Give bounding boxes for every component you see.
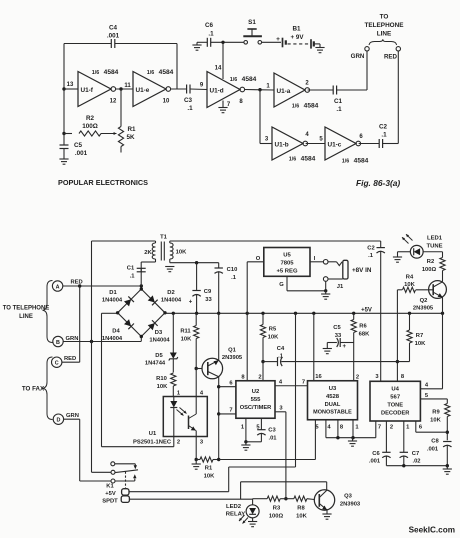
wire Q1 collector (218, 377, 220, 460)
svg-text:2: 2 (258, 375, 261, 381)
diode D3 1N4004 (147, 320, 157, 330)
ground Q3 (326, 510, 328, 514)
svg-text:Q3: Q3 (344, 494, 353, 500)
svg-text:2: 2 (356, 375, 359, 381)
opto arrows (177, 410, 184, 416)
wire (140, 262, 142, 272)
opto transistor (195, 397, 197, 415)
svg-text:7805: 7805 (280, 261, 294, 267)
diode D4 1N4004 (124, 319, 134, 329)
svg-text:4584: 4584 (242, 76, 257, 83)
diode bridge outline (118, 289, 165, 337)
terminal A (52, 281, 62, 291)
svg-text:S1: S1 (248, 19, 256, 26)
svg-text:+5V: +5V (361, 308, 372, 314)
junction (441, 312, 444, 315)
junction (246, 312, 249, 315)
svg-text:12: 12 (110, 99, 117, 105)
svg-text:1N4744: 1N4744 (145, 361, 166, 367)
node (351, 436, 354, 439)
node (446, 431, 449, 434)
wire Q2 emitter (442, 297, 444, 313)
wire audio rail (170, 240, 381, 242)
svg-text:2: 2 (390, 425, 393, 431)
LED2 RELAY (252, 499, 254, 505)
svg-text:C6: C6 (372, 451, 380, 457)
svg-text:A: A (56, 284, 60, 290)
capacitor C3 top (186, 85, 188, 94)
svg-text:C7: C7 (412, 451, 419, 457)
svg-text:GRN: GRN (351, 53, 365, 60)
svg-text:1/6: 1/6 (342, 159, 350, 165)
svg-text:TO FAX: TO FAX (22, 386, 45, 393)
junction (261, 312, 264, 315)
wire Q1 emitter (218, 313, 220, 360)
svg-text:1N4004: 1N4004 (102, 298, 123, 304)
node (446, 464, 449, 467)
junction (312, 312, 315, 315)
transistor Q3 2N3903 (314, 490, 334, 510)
svg-text:B1: B1 (292, 26, 301, 33)
svg-text:J1: J1 (337, 284, 344, 290)
capacitor C3 bottom (260, 418, 262, 429)
wire (245, 89, 274, 92)
svg-text:.1: .1 (368, 253, 374, 259)
svg-text:10K: 10K (157, 384, 168, 390)
wire (211, 41, 244, 43)
wire bridge minus to opto (102, 312, 117, 314)
svg-text:U1: U1 (149, 431, 157, 437)
svg-text:R2: R2 (427, 259, 434, 265)
svg-text:10K: 10K (430, 417, 441, 423)
svg-text:G: G (279, 282, 284, 288)
wire 555 pin1 (245, 418, 247, 442)
svg-text:R11: R11 (180, 329, 191, 335)
wire D down (64, 418, 80, 420)
resistor R3 100ohm (253, 498, 268, 500)
capacitor C8 (443, 441, 451, 443)
wire C (62, 361, 80, 363)
svg-text:Q2: Q2 (420, 298, 428, 304)
ground C5 (323, 348, 332, 350)
brace fax (43, 357, 53, 420)
svg-text:10: 10 (163, 99, 170, 105)
wire LED1 right (423, 251, 442, 253)
ground C5 (59, 158, 68, 160)
svg-text:10K: 10K (296, 513, 307, 519)
resistor R11 10K (195, 313, 197, 325)
wire C4 to R7 (281, 361, 409, 363)
svg-text:1/6: 1/6 (230, 77, 238, 83)
svg-text:10K: 10K (176, 250, 187, 256)
svg-text:SeekIC.com: SeekIC.com (409, 526, 455, 535)
wire 4528 gnd bar (326, 437, 376, 439)
op-amp U1-f (78, 72, 111, 107)
relay K1 contacts (111, 462, 115, 466)
svg-text:U1-f: U1-f (81, 87, 94, 94)
wire LED1 left (398, 251, 411, 253)
svg-text:C1: C1 (127, 266, 135, 272)
svg-text:7: 7 (229, 408, 232, 414)
svg-text:RED: RED (64, 356, 76, 362)
wire (308, 89, 334, 91)
svg-text:.1: .1 (381, 132, 387, 139)
terminal B (53, 336, 63, 346)
wire 4528 pin4 (325, 420, 327, 438)
resistor R1 10K bottom (196, 459, 200, 461)
node (221, 41, 224, 44)
resistor R6 68K (353, 313, 355, 319)
node (217, 458, 220, 461)
LED1 arrows (402, 237, 409, 243)
svg-text:+5 REG: +5 REG (276, 269, 298, 275)
wire T1 top to relay (92, 240, 156, 242)
svg-text:D1: D1 (109, 290, 117, 296)
svg-text:U1-d: U1-d (210, 87, 224, 94)
svg-text:.001: .001 (75, 150, 88, 157)
resistor R7 10K (409, 313, 411, 330)
ground LED2 (248, 521, 257, 523)
diode D2 1N4004 (147, 295, 157, 305)
wire 555 pin3 (275, 411, 286, 413)
svg-text:100Ω: 100Ω (422, 267, 437, 273)
capacitor C2 top (378, 139, 380, 148)
svg-text:C6: C6 (205, 22, 214, 29)
wire A to C (79, 286, 81, 362)
wire R4 to U4 pin8 (396, 290, 398, 382)
wire (359, 143, 380, 145)
svg-text:R4: R4 (406, 274, 414, 280)
svg-text:C3: C3 (184, 97, 193, 104)
svg-text:1/6: 1/6 (147, 70, 155, 76)
node (261, 360, 264, 363)
ground B1 (315, 47, 324, 49)
svg-text:K1: K1 (106, 484, 114, 490)
svg-text:7: 7 (302, 380, 305, 386)
wire 567 pin5 (420, 398, 447, 400)
svg-text:D5: D5 (155, 353, 163, 359)
resistor R8 10K (286, 498, 294, 500)
wire (337, 89, 367, 91)
svg-text:.1: .1 (187, 105, 193, 112)
brace (369, 39, 397, 45)
svg-text:.001: .001 (369, 459, 381, 465)
wire 4528 pin1 (352, 420, 354, 438)
svg-text:C3: C3 (268, 428, 276, 434)
svg-text:4584: 4584 (304, 103, 319, 110)
svg-text:C4: C4 (109, 25, 118, 32)
junction (294, 312, 297, 315)
LED1 TUNE (410, 245, 423, 258)
svg-text:LINE: LINE (19, 314, 33, 320)
svg-text:+ 9V: + 9V (291, 34, 305, 41)
svg-text:U1-c: U1-c (328, 141, 342, 148)
svg-text:O: O (256, 256, 261, 262)
node (217, 412, 220, 415)
wire 4528 pin5 route (314, 420, 316, 460)
terminal GRN top (365, 47, 369, 51)
svg-text:+: + (343, 344, 347, 350)
wire (116, 88, 133, 90)
svg-text:D2: D2 (167, 290, 174, 296)
transistor Q1 2N3905 (202, 358, 223, 379)
svg-text:14: 14 (215, 66, 222, 72)
svg-text:RED: RED (384, 54, 398, 61)
svg-text:2: 2 (177, 440, 180, 446)
wire U5 out (247, 261, 264, 263)
svg-text:11: 11 (124, 83, 131, 89)
ground U3 (352, 438, 354, 441)
wire (306, 143, 325, 145)
svg-text:U1-e: U1-e (136, 87, 150, 94)
svg-text:DUAL: DUAL (325, 402, 341, 408)
wire opto pin4 (195, 369, 197, 397)
jack J1 (323, 260, 328, 265)
capacitor C6 bottom (385, 421, 387, 452)
wire 567 pin4 (420, 388, 442, 390)
ground C6 (196, 42, 198, 45)
opto LED (173, 397, 175, 402)
ic U3 4528 (308, 381, 358, 420)
svg-text:10K: 10K (181, 336, 192, 342)
svg-text:R6: R6 (359, 324, 367, 330)
svg-text:TO TELEPHONE: TO TELEPHONE (3, 306, 50, 312)
svg-text:+: + (276, 36, 280, 43)
relay K1 coil (122, 489, 129, 495)
svg-text:R3: R3 (273, 506, 281, 512)
wire plus drop (295, 313, 297, 467)
svg-text:1/6: 1/6 (289, 157, 297, 163)
svg-text:.02: .02 (412, 459, 420, 465)
capacitor C1 top (332, 86, 334, 95)
svg-text:Fig. 86-3(a): Fig. 86-3(a) (356, 178, 400, 188)
svg-text:R7: R7 (416, 333, 423, 339)
junction (408, 312, 411, 315)
node R3 R8 (284, 497, 287, 500)
svg-text:33: 33 (335, 333, 342, 339)
svg-text:MONOSTABLE: MONOSTABLE (313, 410, 352, 416)
ground 555 (245, 442, 247, 445)
capacitor C5 33 (340, 342, 354, 344)
wire 555 pin4 (275, 385, 308, 387)
svg-text:10K: 10K (404, 282, 415, 288)
svg-text:C9: C9 (204, 289, 212, 295)
svg-text:5K: 5K (126, 134, 135, 141)
regulator U5 7805 (264, 248, 310, 277)
svg-text:C5: C5 (74, 142, 83, 149)
wire (140, 268, 142, 286)
wire (120, 89, 122, 127)
wire 555 pins to U3 pin5 (219, 459, 316, 461)
wire 4528 pin8 (337, 420, 339, 438)
svg-text:C10: C10 (227, 267, 238, 273)
wire ground rail (170, 262, 219, 264)
wire B to bridge (63, 341, 141, 343)
ic U4 567 (370, 381, 420, 421)
wire 4528 pin16 (313, 313, 315, 380)
op-amp U1-a (274, 73, 305, 107)
svg-text:4584: 4584 (104, 69, 119, 76)
svg-text:C: C (55, 361, 59, 367)
wire U5 in (310, 261, 323, 263)
node bridge bottom (140, 335, 143, 338)
svg-text:68K: 68K (359, 331, 370, 337)
wire wiper arrow R1 (101, 133, 117, 135)
svg-text:4584: 4584 (354, 158, 369, 165)
capacitor C7 bottom (403, 421, 405, 452)
svg-text:GRN: GRN (66, 413, 79, 419)
svg-text:.01: .01 (268, 435, 277, 441)
junction (195, 312, 198, 315)
svg-text:.1: .1 (208, 31, 214, 38)
wire (190, 88, 207, 91)
wire 567 pin6 (415, 421, 417, 432)
wire (176, 44, 178, 90)
svg-text:567: 567 (390, 395, 401, 401)
svg-text:1/6: 1/6 (292, 104, 300, 110)
svg-text:13: 13 (67, 82, 74, 88)
potentiometer R1 top (118, 127, 123, 147)
svg-text:.1: .1 (130, 274, 136, 280)
svg-text:R5: R5 (269, 327, 277, 333)
svg-text:LINE: LINE (377, 31, 392, 38)
svg-text:TUNE: TUNE (426, 244, 442, 250)
wire relay to Q3 (241, 481, 327, 483)
capacitor C1 (137, 267, 146, 269)
wire opto pin2 lead (173, 437, 175, 447)
svg-text:16: 16 (315, 374, 322, 380)
svg-text:+5V: +5V (105, 491, 116, 497)
svg-text:B: B (56, 340, 60, 346)
capacitor C4 bottom (263, 361, 278, 363)
resistor R9 10K (445, 404, 450, 417)
wire U5 gnd (286, 276, 288, 291)
svg-text:U2: U2 (252, 389, 260, 395)
svg-text:U3: U3 (329, 386, 337, 392)
svg-text:D: D (56, 418, 60, 424)
wire (63, 44, 65, 90)
node (258, 88, 261, 91)
wire (196, 368, 202, 370)
svg-text:100Ω: 100Ω (269, 513, 284, 519)
wire pin 14 (222, 42, 224, 79)
diode D1 1N4004 (124, 296, 134, 306)
svg-text:U4: U4 (391, 387, 399, 393)
svg-text:.001: .001 (107, 33, 120, 40)
svg-text:R2: R2 (86, 115, 95, 122)
op-amp U1-c (325, 127, 356, 160)
svg-text:LED1: LED1 (427, 236, 443, 242)
svg-text:TELEPHONE: TELEPHONE (364, 22, 404, 29)
svg-text:OSC/TIMER: OSC/TIMER (240, 405, 272, 411)
svg-text:100Ω: 100Ω (82, 123, 98, 130)
svg-text:TONE: TONE (387, 403, 403, 409)
node (195, 261, 198, 264)
terminal D (53, 414, 63, 424)
svg-text:7: 7 (378, 425, 381, 431)
svg-text:C8: C8 (431, 439, 439, 445)
svg-text:U1-a: U1-a (277, 88, 291, 95)
svg-text:C4: C4 (277, 346, 285, 352)
svg-text:RELAY: RELAY (226, 512, 245, 518)
svg-text:U5: U5 (283, 253, 291, 259)
svg-text:.1: .1 (278, 353, 284, 359)
svg-text:LED2: LED2 (226, 504, 242, 510)
svg-text:+: + (189, 300, 193, 306)
resistor R5 10K (262, 313, 264, 324)
ic U2 555 (236, 381, 275, 419)
node (62, 132, 65, 135)
svg-text:RED: RED (71, 280, 83, 286)
wire (383, 143, 399, 145)
node (217, 385, 220, 388)
svg-text:555: 555 (251, 397, 262, 403)
svg-text:2N3903: 2N3903 (340, 502, 361, 508)
svg-text:4584: 4584 (159, 69, 174, 76)
svg-text:2N3905: 2N3905 (413, 306, 434, 312)
svg-text:.1: .1 (231, 275, 237, 281)
op-amp U1-b (272, 127, 303, 160)
svg-text:T1: T1 (160, 235, 168, 241)
svg-text:D4: D4 (112, 329, 120, 335)
svg-text:2N3905: 2N3905 (222, 355, 243, 361)
wire plus rail (166, 312, 443, 314)
svg-text:C2: C2 (379, 124, 388, 131)
svg-text:10K: 10K (268, 334, 279, 340)
capacitor C5 top (63, 134, 65, 146)
ground U1-d pin7 (218, 107, 227, 109)
svg-text:+8V IN: +8V IN (352, 267, 372, 274)
node bridge top (140, 284, 143, 287)
wire 555 pin8 (246, 313, 248, 380)
svg-text:R1: R1 (205, 466, 213, 472)
resistor R2 top (64, 133, 72, 135)
junction (352, 312, 355, 315)
op-amp U1-e (133, 72, 166, 107)
wire (262, 41, 281, 43)
wire A to bridge (63, 285, 141, 287)
wire 555 pin2 (262, 362, 264, 381)
wire coil top (129, 491, 228, 493)
wire 567 pin7 (375, 421, 377, 438)
wire (171, 88, 187, 90)
terminal RED top (396, 47, 400, 51)
ground LED1 (393, 256, 402, 258)
svg-text:D3: D3 (155, 330, 163, 336)
node Q1 base (195, 367, 198, 370)
wire C4 feedback top (64, 43, 111, 45)
svg-text:33: 33 (205, 297, 212, 303)
wire 555 pin7 (219, 413, 236, 415)
node (402, 464, 405, 467)
node (244, 440, 247, 443)
node (396, 360, 399, 363)
node B relay tap (90, 340, 93, 343)
ground caps (446, 466, 448, 469)
resistor R4 10K (416, 289, 433, 291)
node pin11 (119, 87, 122, 90)
node A (78, 284, 81, 287)
svg-text:POPULAR ELECTRONICS: POPULAR ELECTRONICS (58, 178, 148, 187)
junction (172, 312, 175, 315)
terminal C (52, 357, 62, 367)
optocoupler U1 PS2501-1NEC (163, 397, 207, 437)
resistor R2 100ohm bottom (440, 258, 445, 271)
svg-text:TO: TO (380, 14, 389, 21)
wire pin 7 (222, 101, 224, 108)
svg-text:R10: R10 (156, 376, 167, 382)
ground opto (195, 460, 197, 465)
